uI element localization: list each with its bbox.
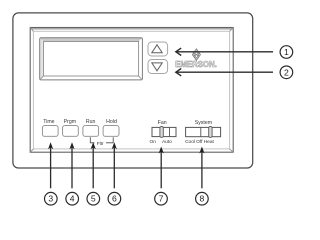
svg-text:Run: Run [86, 119, 96, 125]
svg-text:On: On [149, 139, 156, 145]
svg-text:Fltr: Fltr [97, 141, 104, 147]
svg-text:4: 4 [70, 194, 75, 204]
svg-text:1: 1 [284, 47, 289, 57]
svg-text:2: 2 [284, 67, 289, 77]
svg-text:EMERSON.: EMERSON. [175, 59, 217, 69]
svg-text:Hold: Hold [106, 119, 117, 125]
svg-text:Auto: Auto [162, 139, 172, 145]
svg-text:Cool: Cool [185, 139, 195, 145]
svg-text:Time: Time [43, 119, 54, 125]
svg-text:7: 7 [159, 194, 164, 204]
svg-text:Fan: Fan [158, 120, 167, 126]
svg-text:5: 5 [91, 194, 96, 204]
svg-text:System: System [195, 120, 212, 126]
svg-text:8: 8 [200, 194, 205, 204]
svg-text:Prgm: Prgm [64, 119, 76, 125]
svg-text:6: 6 [112, 194, 117, 204]
svg-text:3: 3 [48, 194, 53, 204]
svg-text:Off: Off [196, 139, 203, 145]
svg-text:Heat: Heat [204, 139, 215, 145]
